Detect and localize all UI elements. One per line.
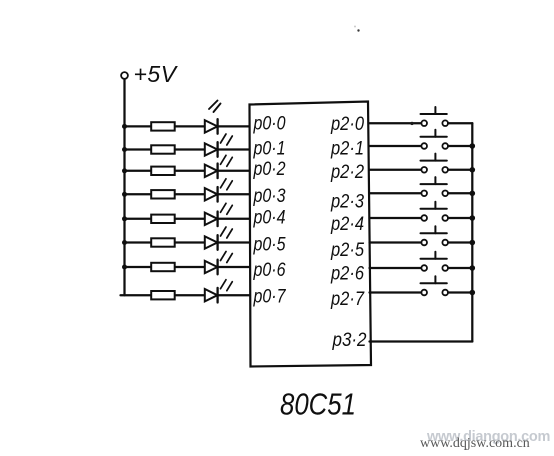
- svg-text:p2·7: p2·7: [330, 289, 365, 310]
- svg-text:p0·6: p0·6: [253, 260, 286, 281]
- svg-text:p0·7: p0·7: [253, 286, 287, 307]
- svg-text:+5V: +5V: [134, 61, 179, 87]
- svg-text:p2·0: p2·0: [330, 114, 364, 135]
- svg-text:p0·3: p0·3: [253, 186, 286, 207]
- svg-text:p2·5: p2·5: [330, 240, 364, 261]
- svg-text:p2·2: p2·2: [330, 162, 364, 183]
- svg-text:www.dqjsw.com.cn: www.dqjsw.com.cn: [420, 436, 530, 451]
- svg-text:p2·4: p2·4: [330, 214, 364, 235]
- svg-text:p3·2: p3·2: [332, 330, 367, 351]
- svg-text:p2·6: p2·6: [330, 263, 364, 284]
- svg-text:p0·4: p0·4: [253, 207, 286, 228]
- svg-text:p2·1: p2·1: [330, 139, 364, 160]
- svg-text:80C51: 80C51: [280, 387, 356, 422]
- svg-text:p0·5: p0·5: [253, 234, 286, 255]
- svg-text:p2·3: p2·3: [330, 192, 364, 213]
- svg-text:p0·2: p0·2: [253, 159, 286, 180]
- svg-text:p0·0: p0·0: [253, 114, 286, 135]
- svg-text:p0·1: p0·1: [253, 138, 286, 159]
